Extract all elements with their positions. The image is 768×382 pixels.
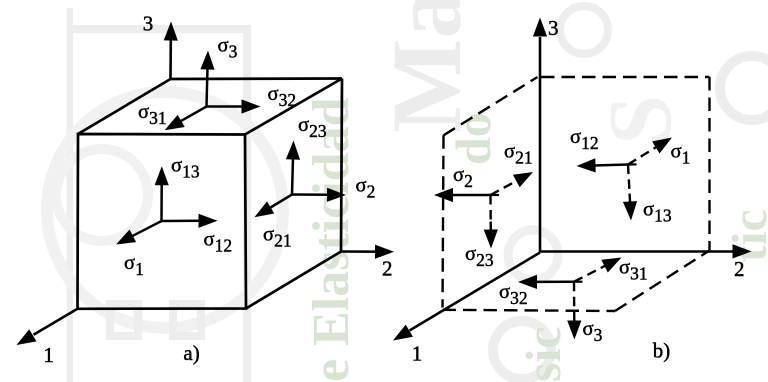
- axis 2 arrow (b): [540, 250, 733, 253]
- svg-text:1: 1: [43, 343, 54, 367]
- cube top-left edge: [78, 79, 171, 134]
- axis 3 arrow (a): [169, 40, 172, 80]
- svg-text:tic: tic: [721, 209, 768, 262]
- svg-text:σ23: σ23: [465, 243, 494, 270]
- cube front face: [78, 134, 247, 309]
- arrow sigma1 (b): [628, 147, 656, 164]
- svg-text:σ31: σ31: [138, 101, 167, 128]
- svg-text:σ2: σ2: [453, 164, 473, 191]
- arrow sigma3 (b): [573, 282, 576, 313]
- arrow sigma2 (b): [451, 194, 491, 197]
- svg-text:3: 3: [143, 12, 154, 36]
- svg-text:σ3: σ3: [583, 318, 603, 345]
- dashed plane 2-3 right edge: [708, 77, 710, 251]
- node center sigma1-face (b): [627, 163, 637, 165]
- watermark gray ring bottom mid: [493, 321, 551, 379]
- arrow sigma23 (b): [489, 195, 492, 222]
- watermark gray square 1: [110, 304, 138, 336]
- svg-text:2: 2: [382, 257, 393, 281]
- axis 1 arrow (b): [410, 253, 541, 331]
- svg-text:σ32: σ32: [499, 281, 528, 308]
- svg-text:S: S: [591, 95, 690, 145]
- watermark gray arc small: [56, 149, 148, 241]
- arrow sigma12 (b): [594, 165, 629, 166]
- svg-text:b): b): [653, 339, 671, 363]
- dashed plane 1-2 front edge: [443, 310, 616, 311]
- arrow sigma32 (b): [535, 280, 574, 283]
- cube top-back edge: [171, 77, 343, 80]
- svg-text:3: 3: [548, 16, 559, 40]
- arrow sigma31 (b): [574, 266, 605, 282]
- cube top-right edge: [245, 79, 342, 135]
- node center sigma2-face (b): [489, 194, 499, 196]
- watermark gray horizontal bar top: [67, 25, 251, 33]
- dashed plane 1-2 right edge: [615, 251, 710, 312]
- svg-text:1: 1: [412, 342, 423, 366]
- arrow sigma32 (a): [207, 105, 244, 108]
- watermark gray ring far right: [720, 56, 768, 120]
- watermark gray ring right top: [560, 6, 608, 54]
- svg-text:sic: sic: [515, 326, 571, 382]
- dashed plane 1-3 left edge: [443, 135, 444, 307]
- arrow sigma2 (a): [292, 193, 329, 196]
- svg-text:do: do: [445, 112, 501, 165]
- watermark gray vertical bar left: [67, 8, 74, 382]
- watermark gray ring mid: [508, 230, 558, 280]
- svg-text:σ31: σ31: [619, 257, 648, 284]
- arrow sigma12 (a): [162, 220, 201, 223]
- dashed plane 2-3 top edge: [541, 76, 710, 78]
- axis 1 arrow (a): [34, 309, 78, 335]
- svg-text:σ3: σ3: [218, 35, 238, 62]
- svg-text:σ13: σ13: [171, 155, 200, 182]
- arrow sigma13 (b): [628, 165, 630, 194]
- arrow sigma21 (b): [491, 181, 517, 195]
- watermark gray vertical bar mid: [243, 25, 251, 382]
- arrow sigma21 (a): [269, 195, 292, 209]
- svg-text:σ21: σ21: [504, 141, 533, 168]
- arrow sigma13 (a): [160, 183, 163, 221]
- watermark gray square 2: [173, 304, 201, 336]
- arrow sigma3 (a): [207, 68, 208, 107]
- svg-text:σ1: σ1: [124, 252, 144, 279]
- svg-text:σ12: σ12: [204, 229, 233, 256]
- svg-text:a): a): [183, 341, 199, 365]
- arrow sigma31 (a): [180, 107, 207, 122]
- svg-text:σ32: σ32: [268, 83, 297, 110]
- svg-text:σ13: σ13: [643, 199, 672, 226]
- node center sigma3-face (b): [573, 281, 583, 283]
- arrow sigma1 (a): [131, 221, 161, 237]
- cube back-right edge: [341, 79, 342, 252]
- axis 2 arrow (a): [341, 250, 377, 253]
- dashed plane 1-3 top edge: [444, 77, 538, 135]
- axis 3 arrow (b): [539, 37, 542, 253]
- svg-text:2: 2: [734, 257, 745, 281]
- cube bottom-right edge: [246, 252, 341, 309]
- arrow sigma23 (a): [292, 158, 293, 195]
- watermark gray ring large: [47, 92, 283, 328]
